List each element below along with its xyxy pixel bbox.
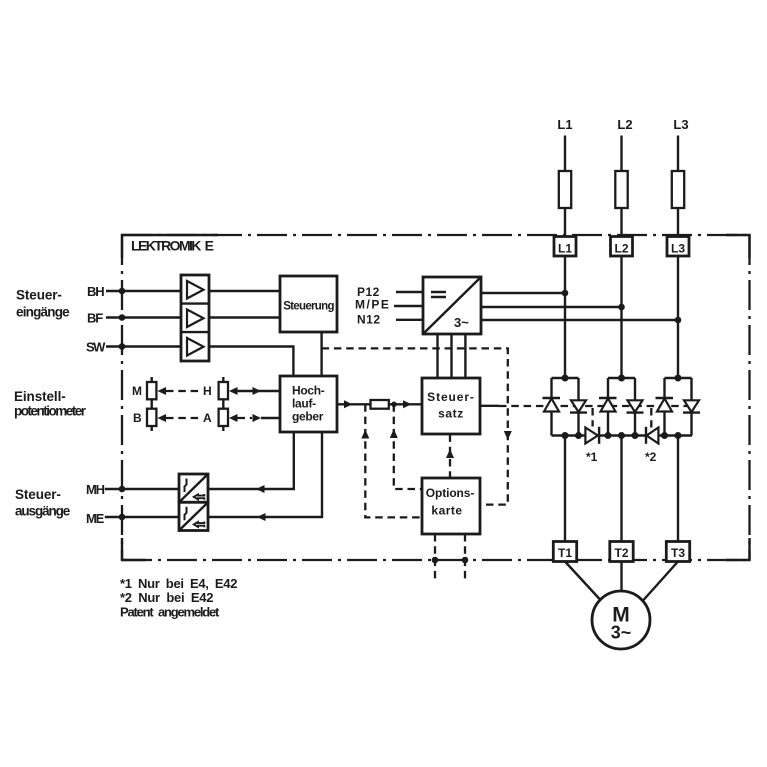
terminal box T1: [553, 542, 576, 562]
thyristor V2 down: [570, 400, 587, 412]
thyristor V3 up: [599, 398, 617, 412]
wire P12 stub: [396, 291, 423, 293]
enclosure border LEKTROMIK E (chain line): [122, 235, 750, 560]
svg-text:Patent angemeldet: Patent angemeldet: [120, 605, 220, 620]
wire BH input: [106, 290, 181, 292]
label Steuer-eingaenge: [16, 288, 70, 320]
motor M 3~: [592, 591, 650, 649]
block Steuerung: [280, 276, 337, 332]
dashed wire option tap 1: [365, 404, 422, 517]
svg-text:eingänge: eingänge: [16, 305, 70, 320]
svg-text:L2: L2: [614, 242, 628, 256]
block Optionskarte: [422, 478, 480, 534]
svg-text:L3: L3: [671, 242, 685, 256]
node block2 top: [618, 375, 625, 382]
wire L2 box to thyristor block 2: [620, 256, 622, 378]
wire resistor to Steuersatz: [389, 403, 422, 405]
block Hochlaufgeber: [280, 376, 337, 432]
svg-text:ME: ME: [86, 511, 105, 526]
wire T2 to motor: [620, 562, 622, 592]
potentiometer B: [147, 405, 156, 432]
svg-text:L1: L1: [557, 117, 572, 132]
svg-text:*2 Nur bei E42: *2 Nur bei E42: [120, 590, 213, 605]
node MH on border: [119, 486, 126, 493]
potentiometer A: [219, 405, 228, 432]
node block3 bottom: [675, 432, 682, 439]
arrow left on MH return: [256, 485, 265, 493]
dashed gate drop to diode 2: [650, 408, 652, 428]
wire into Hochlaufgeber row2: [261, 417, 280, 419]
node BF on border: [119, 314, 126, 321]
svg-text:MH: MH: [86, 482, 105, 497]
wire Hochlaufgeber to optocoupler MH: [208, 432, 294, 489]
thyristor V4 down: [627, 400, 644, 412]
thyristor V6 down: [683, 400, 700, 412]
node block3 top: [675, 375, 682, 382]
svg-text:Options-: Options-: [426, 486, 475, 500]
wire block2 to T2: [620, 436, 622, 542]
thyristor block 1: [552, 378, 579, 436]
terminal box L3: [667, 237, 689, 257]
wire L2 drop: [620, 136, 622, 237]
svg-text:L1: L1: [558, 242, 572, 256]
svg-text:3~: 3~: [454, 315, 469, 330]
arrow into B: [158, 414, 167, 422]
svg-text:Steuer-: Steuer-: [427, 390, 475, 404]
svg-text:M: M: [132, 384, 142, 398]
node SW on border: [119, 343, 126, 350]
node block3 bottom left: [661, 432, 668, 439]
amplifier triangle 2: [187, 310, 204, 328]
svg-text:L3: L3: [673, 117, 688, 132]
diode *2: [646, 427, 658, 444]
node after resistor: [391, 402, 397, 408]
arrow into H: [229, 387, 238, 395]
terminal box T3: [666, 542, 689, 562]
svg-text:Steuer-: Steuer-: [16, 288, 62, 303]
node P12/L1: [562, 290, 569, 297]
terminal box L2: [611, 237, 633, 257]
wire amp3 to Hochlaufgeber: [209, 347, 293, 377]
wire N12 stub: [396, 319, 423, 321]
block Steuersatz: [422, 378, 480, 434]
svg-text:M/PE: M/PE: [355, 298, 390, 312]
wire BF input: [106, 316, 181, 318]
svg-text:H: H: [203, 384, 212, 398]
wire L3 box to thyristor block 3: [677, 256, 679, 378]
arrow up on tap 1: [361, 430, 369, 439]
node block2 bottom: [618, 432, 625, 439]
dashed link Steuersatz to Optionskarte: [449, 434, 451, 477]
fuse L1: [559, 171, 571, 208]
node block2 bottom left: [605, 432, 612, 439]
arrow right into Steuersatz: [403, 400, 412, 408]
fuse L2: [615, 171, 627, 208]
svg-text:Steuerung: Steuerung: [283, 301, 334, 313]
optocoupler MH: [179, 474, 208, 502]
fuse L3: [672, 171, 684, 208]
svg-text:SW: SW: [86, 340, 106, 355]
svg-text:karte: karte: [431, 504, 462, 518]
wire Steuersatz gate output: [480, 405, 499, 407]
optocoupler ME: [179, 502, 208, 530]
svg-text:A: A: [203, 411, 212, 425]
diode *1: [585, 427, 599, 444]
wire L3 drop: [677, 136, 679, 237]
arrow into M: [158, 387, 167, 395]
node block1 bottom: [562, 432, 569, 439]
svg-text:T3: T3: [671, 546, 685, 560]
svg-text:3~: 3~: [611, 623, 632, 643]
dashed wire Steuerung branch to Optionskarte (right loop): [322, 348, 508, 504]
node ME on border: [119, 514, 126, 521]
arrow down on dashed loop: [504, 431, 512, 440]
svg-text:L2: L2: [617, 117, 632, 132]
arrow up on tap 2: [390, 429, 398, 438]
resistor ramp limit: [371, 400, 389, 409]
wire amp1 to Steuerung: [209, 290, 280, 292]
dashed stubs below Optionskarte: [435, 534, 465, 581]
dashed wire option tap 2: [394, 404, 422, 489]
wire amp2 to Steuerung: [209, 316, 280, 318]
svg-text:*2: *2: [645, 450, 657, 464]
dashed gate line to thyristors: [499, 405, 688, 407]
wire block1 to T1: [564, 436, 566, 542]
node block1 bottom right: [575, 432, 582, 439]
node block1 top: [562, 375, 569, 382]
svg-text:Steuer-: Steuer-: [15, 487, 61, 502]
potentiometer H: [219, 377, 228, 405]
wire T3 to motor: [644, 562, 679, 601]
wire Hochlaufgeber to Steuersatz: [337, 403, 371, 405]
svg-text:*1: *1: [586, 450, 598, 464]
wire ME output: [105, 516, 179, 518]
dashed wire B to A: [166, 417, 200, 419]
terminal box L1: [554, 237, 576, 257]
wire MH output: [105, 488, 179, 490]
svg-text:LEKTROMIK E: LEKTROMIK E: [131, 238, 214, 254]
arrow right after Hochlaufgeber: [344, 400, 353, 408]
node block2 bottom right: [632, 432, 639, 439]
wire L1 box to thyristor block 1: [564, 256, 566, 378]
node option stub 2: [462, 557, 469, 564]
thyristor block 2: [608, 378, 635, 436]
wire M/PE stub: [394, 305, 423, 307]
node M/PE/L2: [618, 304, 625, 311]
svg-text:Hoch-: Hoch-: [292, 384, 325, 398]
svg-text:T2: T2: [614, 546, 628, 560]
wire common cathode bus: [552, 434, 693, 436]
wire N12 to L3 column: [481, 319, 678, 321]
thyristor V5 up: [656, 398, 674, 412]
svg-text:T1: T1: [558, 546, 572, 560]
svg-text:geber: geber: [292, 410, 324, 424]
label Steuer-ausgaenge: [15, 487, 71, 519]
svg-text:B: B: [133, 411, 142, 425]
svg-text:BH: BH: [87, 284, 104, 299]
svg-text:potentiometer: potentiometer: [14, 404, 87, 419]
amplifier triangle 3: [187, 338, 204, 356]
wire block3 to T3: [677, 436, 679, 542]
svg-text:Einstell-: Einstell-: [14, 389, 66, 404]
dashed wire A to Hochlaufgeber: [238, 417, 253, 419]
potentiometer M: [147, 377, 156, 405]
svg-text:lauf-: lauf-: [292, 397, 316, 411]
svg-text:ausgänge: ausgänge: [15, 504, 71, 519]
terminal box T2: [610, 542, 633, 562]
wire Steuerung to Hochlaufgeber: [320, 332, 322, 376]
arrow up on link: [446, 449, 454, 458]
wire L1 drop: [564, 136, 566, 237]
dashed gate drop to diode 1: [591, 408, 593, 427]
wire H to Hochlaufgeber: [238, 390, 281, 392]
wire P12 to L1 column: [481, 292, 565, 294]
dashed wire M to H: [166, 390, 200, 392]
arrow into A: [229, 414, 238, 422]
input amplifier bank: [181, 275, 209, 361]
thyristor V1 up: [543, 398, 561, 412]
arrow left on ME return: [257, 513, 266, 521]
wire M/PE to L2 column: [481, 306, 622, 308]
wires PSU to Steuersatz: [438, 334, 466, 378]
wire SW input: [106, 345, 181, 347]
wire Hochlaufgeber to optocoupler ME: [208, 432, 322, 517]
arrow right on A wire: [253, 414, 262, 422]
label Einstell-potentiometer: [14, 389, 87, 419]
arrow right on H wire: [253, 387, 262, 395]
svg-text:satz: satz: [438, 407, 464, 421]
amplifier triangle 1: [187, 281, 204, 299]
thyristor block 3: [665, 378, 692, 436]
svg-text:BF: BF: [87, 311, 103, 326]
node N12/L3: [675, 317, 682, 324]
wire T1 to motor: [565, 562, 600, 600]
svg-text:N12: N12: [357, 313, 381, 327]
node option stub 1: [432, 557, 439, 564]
power supply unit: [423, 277, 481, 334]
node BH on border: [119, 288, 126, 295]
svg-text:*1 Nur bei E4, E42: *1 Nur bei E4, E42: [120, 576, 237, 591]
